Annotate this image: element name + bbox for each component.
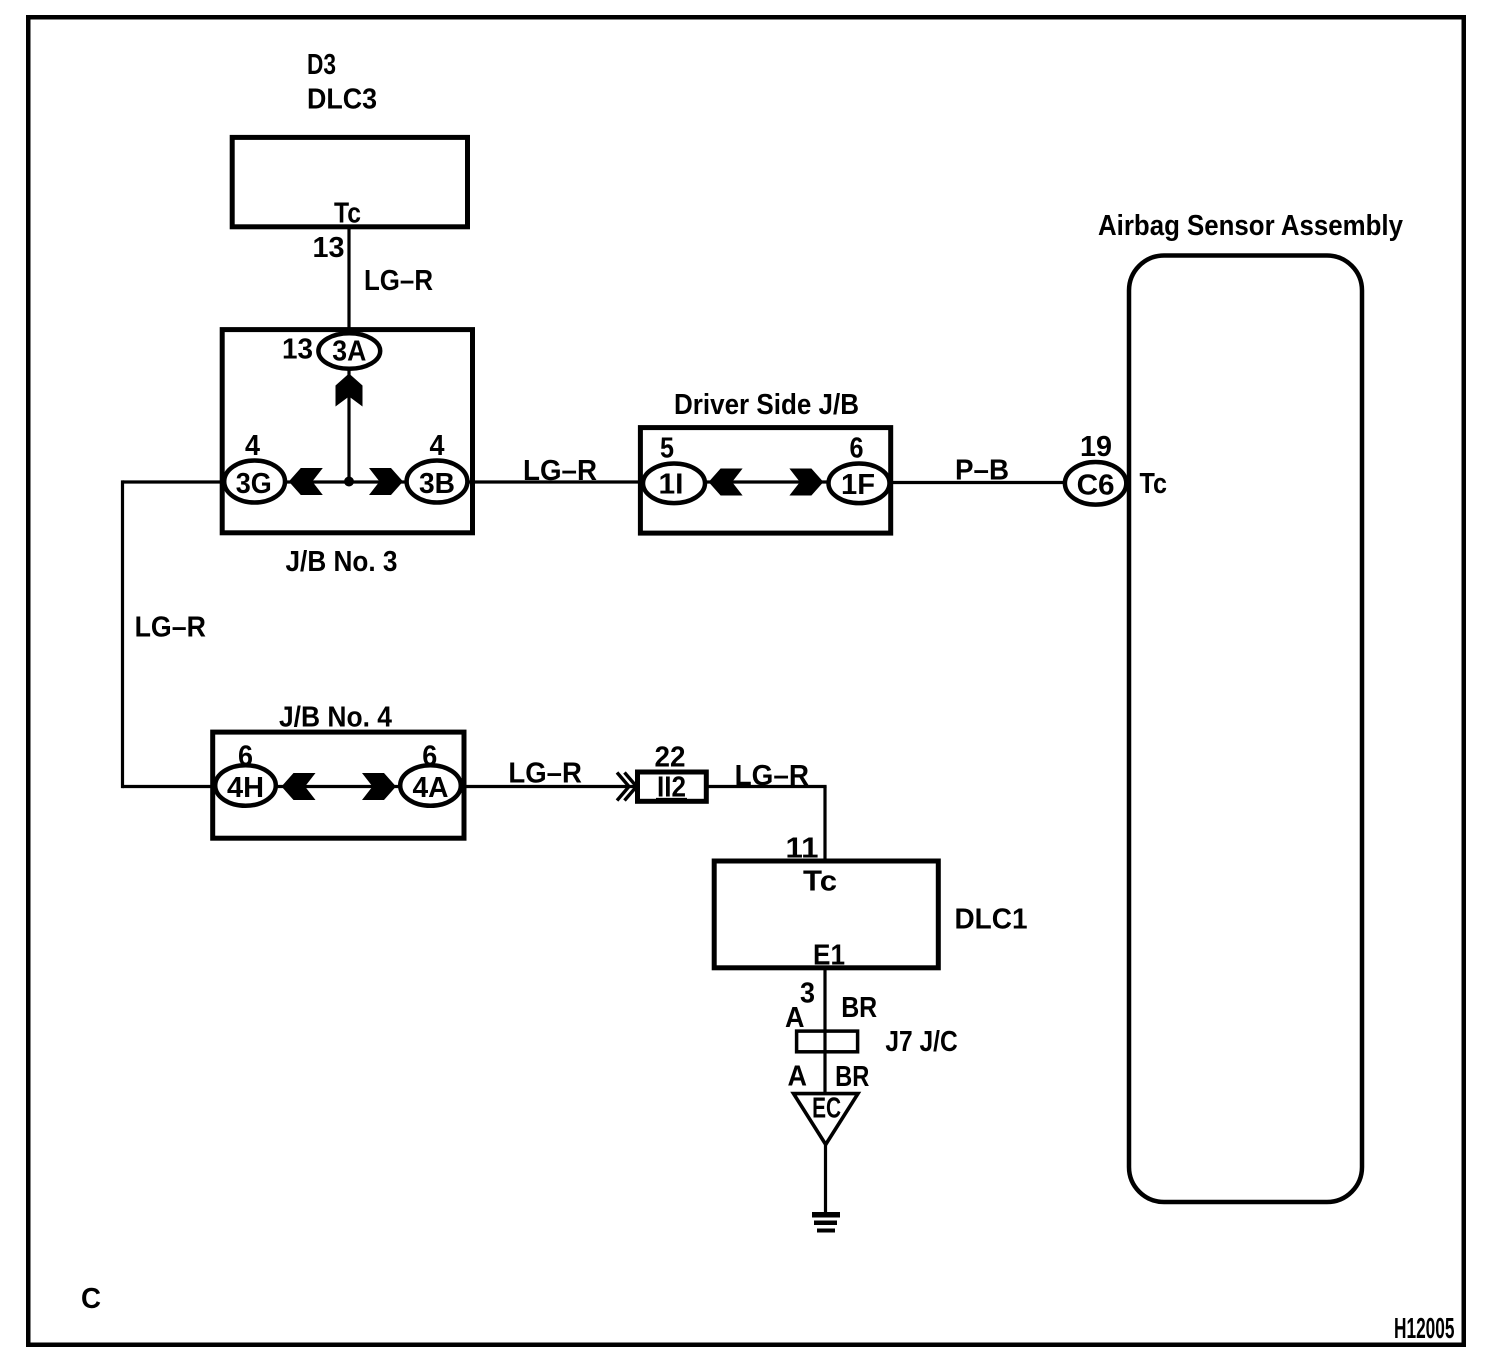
svg-text:P–B: P–B xyxy=(955,455,1009,487)
svg-text:Tc: Tc xyxy=(334,198,361,230)
svg-text:LG–R: LG–R xyxy=(523,455,597,487)
svg-text:4H: 4H xyxy=(227,772,264,804)
svg-text:BR: BR xyxy=(835,1061,869,1093)
svg-text:4A: 4A xyxy=(413,772,449,804)
svg-text:BR: BR xyxy=(841,992,877,1024)
svg-text:4: 4 xyxy=(430,430,445,462)
svg-text:C6: C6 xyxy=(1077,470,1115,502)
svg-text:J/B No. 4: J/B No. 4 xyxy=(279,702,392,734)
svg-text:13: 13 xyxy=(282,334,313,366)
svg-text:E1: E1 xyxy=(813,940,845,972)
svg-text:DLC1: DLC1 xyxy=(955,904,1028,936)
svg-text:6: 6 xyxy=(850,433,864,465)
svg-text:3G: 3G xyxy=(236,468,272,500)
svg-text:A: A xyxy=(788,1061,808,1093)
svg-text:H12005: H12005 xyxy=(1394,1313,1455,1345)
svg-text:Airbag Sensor Assembly: Airbag Sensor Assembly xyxy=(1098,210,1403,242)
svg-text:D3: D3 xyxy=(307,49,336,81)
svg-text:EC: EC xyxy=(812,1093,841,1125)
svg-text:5: 5 xyxy=(660,433,674,465)
svg-text:3A: 3A xyxy=(332,336,366,368)
svg-text:11: 11 xyxy=(786,833,819,865)
svg-text:LG–R: LG–R xyxy=(135,612,206,644)
svg-text:1F: 1F xyxy=(841,469,875,501)
svg-text:19: 19 xyxy=(1080,431,1112,463)
svg-text:6: 6 xyxy=(238,741,253,773)
svg-text:Driver Side J/B: Driver Side J/B xyxy=(674,389,859,421)
svg-text:3B: 3B xyxy=(419,468,455,500)
svg-text:Tc: Tc xyxy=(803,866,837,898)
svg-text:1I: 1I xyxy=(659,469,684,501)
svg-text:4: 4 xyxy=(245,430,260,462)
svg-text:C: C xyxy=(81,1283,101,1315)
svg-text:LG–R: LG–R xyxy=(508,758,582,790)
svg-text:13: 13 xyxy=(313,232,345,264)
svg-text:DLC3: DLC3 xyxy=(307,84,377,116)
svg-text:J7 J/C: J7 J/C xyxy=(885,1026,957,1058)
svg-text:A: A xyxy=(785,1002,805,1034)
svg-text:Tc: Tc xyxy=(1140,468,1168,500)
svg-text:LG–R: LG–R xyxy=(735,760,809,792)
svg-text:6: 6 xyxy=(422,741,437,773)
svg-text:LG–R: LG–R xyxy=(364,265,433,297)
svg-text:22: 22 xyxy=(655,742,686,774)
svg-text:J/B No. 3: J/B No. 3 xyxy=(286,546,398,578)
